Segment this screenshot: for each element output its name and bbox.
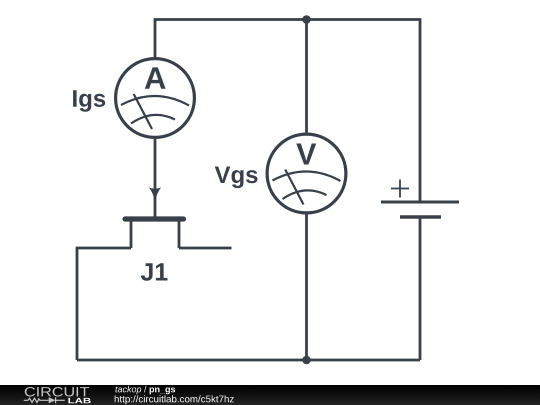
wire left: J1 source to bottom bar (77, 248, 131, 360)
voltmeter letter V (296, 144, 316, 165)
source stub (130, 220, 133, 248)
plus plate (381, 201, 459, 204)
transistor J1 (n-JFET) (125, 187, 184, 248)
label J1 (141, 263, 168, 280)
wire voltmeter bottom (305, 213, 308, 360)
ammeter Igs (116, 59, 195, 138)
plus sign (391, 180, 409, 198)
node bottom junction (302, 356, 311, 365)
footer bar (0, 385, 540, 405)
wire bottom bar (77, 359, 420, 362)
node top junction (302, 15, 311, 24)
meter scale arc (273, 172, 341, 181)
wire J1 drain stub (179, 247, 232, 250)
CircuitLab logo (24, 387, 91, 403)
gate bar (125, 216, 184, 221)
meter needle (285, 170, 303, 205)
wire battery bottom (419, 217, 422, 360)
ammeter body (116, 59, 195, 138)
ammeter letter A (145, 67, 166, 88)
wire ammeter bottom to J1 gate (154, 139, 157, 217)
footer text (115, 386, 175, 394)
wire voltmeter top (305, 20, 308, 135)
meter scale arc small (131, 115, 175, 124)
meter scale arc (121, 96, 189, 105)
voltmeter Vgs (267, 134, 346, 213)
battery V1 (381, 180, 459, 218)
label Vgs (215, 167, 258, 189)
wire top: ammeter top to battery plus (155, 20, 420, 202)
drain stub (178, 220, 181, 248)
label Igs (73, 90, 105, 112)
meter needle (134, 94, 152, 129)
meter scale arc small (283, 190, 327, 199)
minus plate (400, 215, 441, 219)
voltmeter body (267, 134, 346, 213)
gate arrowhead (149, 187, 162, 202)
